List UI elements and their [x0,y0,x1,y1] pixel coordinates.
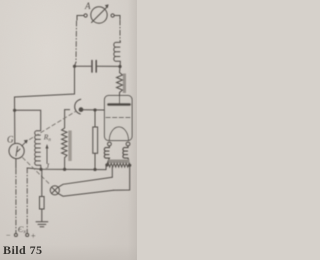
wire lamp top rail [58,177,112,187]
ammeter left terminal [84,14,87,17]
ammeter A [91,4,109,23]
wire meter right dash-dot lead [119,20,121,41]
ammeter right terminal [111,14,114,17]
node left vertical [13,109,16,112]
node junction left of capacitor [73,65,76,68]
wire R4 top lead [94,110,96,127]
ground [36,222,48,227]
svg-text:Bild 75: Bild 75 [3,243,43,257]
node bus A at R3 [63,168,66,171]
resistor R5 to ground [40,197,45,210]
tube V1 envelope [105,96,133,141]
resistor R3 shade band [68,131,71,162]
wire R5 bottom [41,209,43,222]
svg-text:−: − [6,231,11,240]
wire filament bus A [27,165,106,169]
wire meter left dash-dot lead [75,21,78,62]
wire top-left horizontal [15,66,75,97]
node junction below coil L1 [118,65,121,68]
detector arc [75,99,81,114]
node rheostat left [105,163,108,166]
tube V1 grid (dashed) [106,117,131,119]
mech link G to lamp (dashed) [23,158,51,185]
wire to J coil [15,110,41,130]
coil J [35,131,41,170]
mech link G to detector (dashed) [30,112,76,140]
resistor R3 zigzag (middle) [62,110,67,170]
arrow on G [22,140,28,146]
tube socket bead right [126,142,130,146]
wire left vertical [14,97,16,143]
wire rheostat tap down [111,167,113,177]
wire meter left lead [77,16,84,21]
capacitor C1 [92,61,96,73]
lamp La [50,186,59,195]
wire lamp bottom rail [58,190,113,196]
node rheostat right [128,164,131,167]
wire detector bracket [65,109,70,111]
wire meter lead to cap node [75,62,76,66]
svg-text:+: + [31,232,36,241]
coil L1 top right [114,41,121,67]
tube V1 anode plate [109,103,130,106]
wire rheostat right down to bottom [114,165,130,190]
wire meter right lead [114,16,120,20]
tube socket bead left [108,142,112,146]
resistor Ra anode zigzag [117,67,123,96]
arrow Rn [46,144,49,164]
filament choke right [123,146,130,165]
resistor R4 box (middle) [93,127,98,153]
wire R5 top [41,169,43,196]
tube V1 filament arch [109,127,128,141]
svg-text:G: G [7,135,14,145]
terminal plus [26,234,29,237]
filament choke left [104,146,109,165]
wire cap left [75,65,92,67]
node bus A at R4 [93,168,96,171]
rheostat R2 shade band [109,160,130,164]
svg-text:A: A [84,1,91,11]
wire G down [15,159,17,169]
battery lead minus (dash-dot) [15,169,17,233]
galvanometer G [9,143,24,158]
rheostat R2 zigzag [107,163,130,167]
battery lead plus (dash-dot) [26,168,28,233]
wire cap right [97,65,120,67]
tube V1 anode lead [119,96,121,104]
terminal minus [14,234,17,237]
wire R4 bottom lead [94,153,96,169]
node grid wire / R4 [93,108,96,111]
resistor Ra shade band [123,74,126,94]
wire grid line [83,109,105,111]
galvanometer needle [16,147,20,157]
node bus A at J coil [39,168,42,171]
detector contact dot [79,107,84,112]
